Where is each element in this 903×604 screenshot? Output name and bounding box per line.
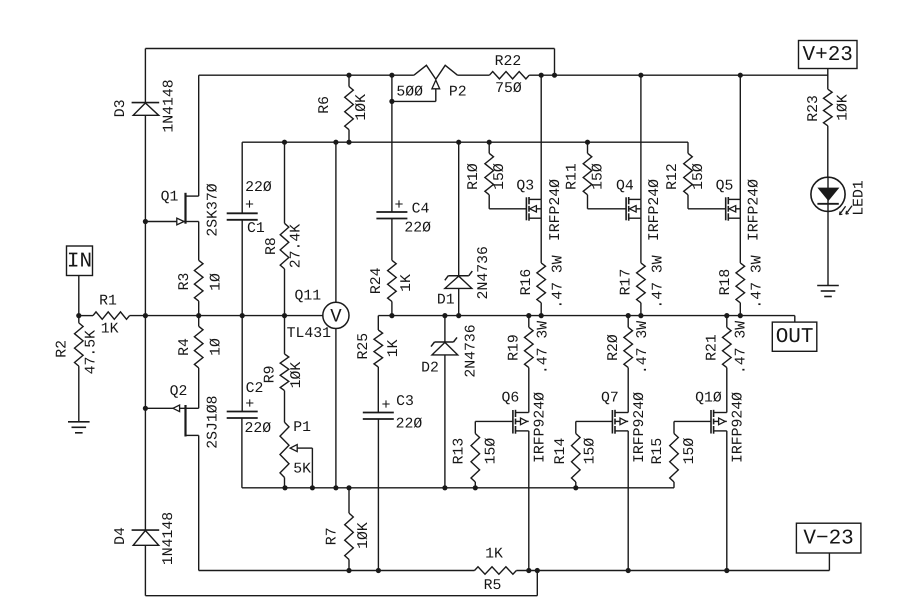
svg-text:R18: R18: [718, 269, 734, 296]
wire Q6 drain column: [528, 431, 530, 571]
svg-text:Q2: Q2: [170, 384, 188, 400]
transistor Q7 IRFP9240: [601, 390, 648, 463]
capacitor C1: [227, 142, 272, 315]
resistor R18: [718, 255, 766, 315]
resistor R1: [93, 293, 130, 337]
port IN: [67, 246, 93, 276]
wire Q3 source column: [540, 199, 542, 263]
svg-text:2SJ1Ø8: 2SJ1Ø8: [206, 395, 222, 448]
junction dots lower bias rail: [282, 485, 287, 490]
svg-text:22Ø: 22Ø: [396, 417, 423, 433]
svg-text:22Ø: 22Ø: [404, 221, 431, 237]
svg-text:D2: D2: [421, 361, 439, 377]
svg-text:Q5: Q5: [716, 178, 734, 194]
resistor R14: [553, 421, 612, 487]
svg-text:Q6: Q6: [502, 390, 520, 406]
svg-text:R6: R6: [317, 96, 333, 114]
svg-text:2SK37Ø: 2SK37Ø: [206, 183, 222, 236]
wire V+ front-end rail: [199, 74, 414, 76]
junction dots OUT rail: [389, 313, 394, 318]
svg-text:OUT: OUT: [776, 326, 814, 349]
svg-text:R1Ø: R1Ø: [466, 163, 482, 190]
svg-text:LED1: LED1: [852, 180, 868, 216]
wire V- rail: [199, 570, 475, 572]
wire Q7 drain column: [627, 431, 629, 571]
svg-text:R21: R21: [705, 334, 721, 361]
transistor Q5 IRFP240: [716, 178, 763, 241]
svg-text:5ØØ: 5ØØ: [396, 84, 423, 100]
svg-text:+: +: [394, 197, 403, 214]
resistor R9: [263, 316, 306, 391]
svg-text:1N4148: 1N4148: [162, 79, 178, 132]
svg-text:27.4K: 27.4K: [289, 224, 305, 269]
wire Q5 source column: [739, 199, 741, 263]
svg-text:R14: R14: [553, 438, 569, 465]
resistor R4: [177, 316, 224, 409]
zener diode D1 2N4736: [437, 142, 492, 315]
svg-text:D3: D3: [113, 99, 129, 117]
svg-text:1ØK: 1ØK: [289, 362, 305, 389]
svg-text:2N4736: 2N4736: [463, 324, 479, 377]
svg-text:P1: P1: [293, 420, 311, 436]
svg-text:R2: R2: [54, 340, 70, 358]
resistor R25: [356, 316, 402, 413]
transistor Q4 IRFP240: [616, 178, 663, 241]
svg-text:D1: D1: [437, 293, 455, 309]
svg-text:1K: 1K: [386, 339, 402, 357]
svg-text:R22: R22: [495, 54, 522, 70]
svg-text:1ØK: 1ØK: [356, 522, 372, 549]
svg-text:V: V: [330, 305, 342, 327]
wire input node rail: [79, 315, 93, 317]
resistor R6: [317, 75, 370, 142]
capacitor C3: [363, 394, 423, 571]
resistor R23: [806, 89, 851, 177]
diode D3: [113, 79, 178, 132]
svg-text:IRFP924Ø: IRFP924Ø: [730, 392, 746, 463]
port V+23: [799, 41, 858, 69]
potentiometer P1: [280, 391, 312, 488]
svg-text:R8: R8: [264, 237, 280, 255]
LED LED1: [811, 177, 868, 285]
svg-text:IRFP24Ø: IRFP24Ø: [747, 179, 763, 241]
junction dots V- rail: [346, 568, 351, 573]
capacitor C4: [376, 75, 431, 260]
svg-text:1K: 1K: [399, 274, 415, 292]
wire input gate column: [144, 49, 146, 103]
svg-text:Q4: Q4: [616, 178, 634, 194]
svg-text:Q11: Q11: [294, 289, 321, 305]
diode D4: [113, 512, 177, 565]
resistor R21: [705, 316, 750, 413]
junction dots V+ rail: [346, 73, 351, 78]
svg-text:R24: R24: [369, 267, 385, 294]
svg-text:IRFP24Ø: IRFP24Ø: [647, 179, 663, 241]
svg-text:IRFP24Ø: IRFP24Ø: [548, 179, 564, 241]
svg-text:47.5K: 47.5K: [84, 330, 100, 375]
zener diode D2 2N4736: [421, 316, 479, 488]
svg-text:IRFP924Ø: IRFP924Ø: [532, 392, 548, 463]
wire Q4 drain column: [640, 75, 642, 199]
svg-text:C2: C2: [246, 381, 264, 397]
wire OUT rail: [378, 315, 795, 317]
wire Q10 drain column: [726, 431, 728, 571]
wire Q4 source column: [640, 199, 642, 263]
svg-text:V+23: V+23: [802, 44, 852, 67]
op-amp U1 TL431 Q11: [287, 142, 349, 488]
resistor R15: [650, 421, 711, 487]
svg-text:V−23: V−23: [803, 527, 853, 550]
svg-text:22Ø: 22Ø: [245, 180, 272, 196]
svg-text:Q7: Q7: [601, 390, 619, 406]
svg-text:R25: R25: [356, 333, 372, 360]
transistor Q6 IRFP9240: [502, 390, 549, 463]
potentiometer P2: [392, 65, 467, 101]
wire IN stub: [78, 276, 80, 316]
svg-text:R12: R12: [665, 163, 681, 190]
svg-text:R16: R16: [519, 269, 535, 296]
svg-text:5K: 5K: [293, 461, 311, 477]
svg-text:Q3: Q3: [516, 178, 534, 194]
wire V+23 stub: [827, 69, 829, 90]
svg-text:C3: C3: [396, 394, 414, 410]
svg-text:Q1Ø: Q1Ø: [695, 390, 722, 406]
svg-text:15Ø: 15Ø: [591, 163, 607, 190]
wire top V+ link rail: [145, 48, 554, 50]
svg-text:1ØK: 1ØK: [835, 94, 851, 121]
resistor R13: [452, 421, 513, 487]
svg-text:1N4148: 1N4148: [161, 512, 177, 565]
svg-text:.47 3W: .47 3W: [650, 255, 666, 308]
svg-text:+: +: [245, 396, 254, 413]
svg-text:15Ø: 15Ø: [484, 438, 500, 465]
svg-text:R1: R1: [99, 293, 117, 309]
svg-text:15Ø: 15Ø: [492, 163, 508, 190]
resistor R20: [606, 316, 651, 413]
junction dot P2 wiper: [389, 99, 394, 104]
junction dots upper bias rail: [282, 140, 287, 145]
svg-text:P2: P2: [449, 84, 467, 100]
svg-text:1K: 1K: [101, 322, 119, 338]
resistor R3: [177, 222, 224, 316]
svg-text:15Ø: 15Ø: [682, 438, 698, 465]
svg-text:+: +: [245, 197, 254, 214]
svg-text:1Ø: 1Ø: [208, 338, 224, 356]
wire Q1 drain column: [198, 75, 200, 196]
svg-text:.47 3W: .47 3W: [535, 321, 551, 374]
svg-text:15Ø: 15Ø: [583, 438, 599, 465]
wire lower bias rail: [242, 487, 674, 489]
resistor R7: [325, 488, 372, 571]
resistor R10: [466, 142, 526, 209]
svg-text:R9: R9: [263, 366, 279, 384]
svg-text:C4: C4: [412, 202, 430, 218]
svg-text:R13: R13: [452, 438, 468, 465]
wire upper bias rail: [242, 141, 688, 143]
wire Q3 drain column: [540, 75, 542, 199]
junction dots gate column: [143, 219, 148, 224]
wire Q5 drain column: [739, 75, 741, 199]
svg-text:R17: R17: [619, 269, 635, 296]
port OUT: [772, 322, 817, 351]
resistor R5: [475, 546, 517, 593]
transistor Q3 IRFP240: [516, 178, 563, 241]
svg-text:+: +: [381, 397, 390, 414]
resistor R19: [507, 316, 552, 413]
svg-text:R2Ø: R2Ø: [606, 334, 622, 361]
svg-text:1K: 1K: [485, 546, 503, 562]
resistor R11: [564, 142, 626, 209]
svg-text:15Ø: 15Ø: [691, 163, 707, 190]
svg-text:.47 3W: .47 3W: [750, 255, 766, 308]
port V-23: [796, 523, 861, 553]
svg-text:R7: R7: [325, 527, 341, 545]
svg-text:R11: R11: [564, 163, 580, 190]
svg-text:TL431: TL431: [287, 326, 332, 342]
resistor R2: [54, 316, 99, 422]
resistor R8: [264, 142, 305, 315]
wire Q2 drain column: [198, 435, 200, 570]
transistor Q2 2SJ108: [145, 384, 221, 449]
svg-text:C1: C1: [247, 221, 265, 237]
junction dots signal rail: [76, 313, 81, 318]
svg-text:R15: R15: [650, 438, 666, 465]
resistor R17: [619, 255, 667, 315]
svg-text:D4: D4: [113, 527, 129, 545]
capacitor C2: [227, 316, 272, 488]
svg-text:IN: IN: [67, 250, 92, 273]
svg-text:.47 3W: .47 3W: [733, 321, 749, 374]
resistor R24: [369, 260, 415, 315]
svg-text:R23: R23: [806, 95, 822, 122]
resistor R22: [489, 54, 529, 97]
resistor R16: [519, 255, 567, 315]
svg-text:22Ø: 22Ø: [244, 421, 271, 437]
svg-text:R4: R4: [177, 338, 193, 356]
transistor Q1 2SK370: [145, 183, 221, 236]
svg-text:.47 3W: .47 3W: [551, 255, 567, 308]
svg-text:2N4736: 2N4736: [476, 246, 492, 299]
svg-text:1Ø: 1Ø: [208, 273, 224, 291]
transistor Q10 IRFP9240: [695, 390, 746, 463]
svg-text:75Ø: 75Ø: [495, 81, 522, 97]
svg-text:R5: R5: [484, 578, 502, 594]
wire bottom link line: [145, 595, 537, 597]
svg-text:R3: R3: [177, 273, 193, 291]
ground R2: [68, 422, 90, 433]
svg-text:.47 3W: .47 3W: [635, 321, 651, 374]
ground LED1: [817, 286, 839, 297]
svg-text:1ØK: 1ØK: [354, 94, 370, 121]
svg-text:IRFP924Ø: IRFP924Ø: [632, 392, 648, 463]
resistor R12: [665, 142, 726, 209]
svg-text:Q1: Q1: [161, 190, 179, 206]
svg-text:R19: R19: [507, 334, 523, 361]
